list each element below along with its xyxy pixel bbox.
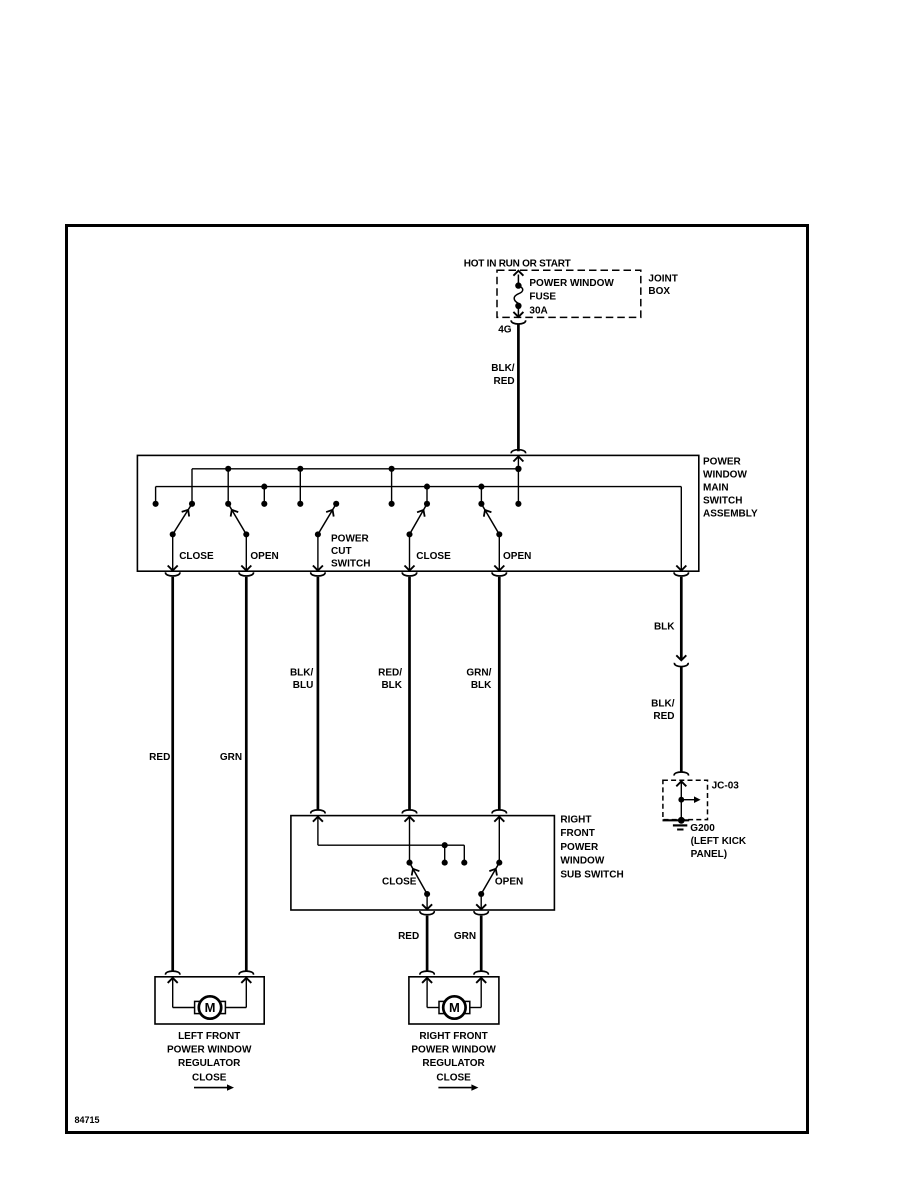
contact dot xyxy=(515,501,521,507)
connector below sub switch xyxy=(420,911,434,915)
switch LF close pivot dot xyxy=(170,531,176,537)
wire RED to right regulator xyxy=(426,916,429,972)
wire to motor + left front power window regulator xyxy=(172,978,174,1008)
wire contact stub at 264 xyxy=(263,487,265,504)
right front power window regulator close direction arrow xyxy=(438,1087,471,1089)
entry arrow right front power window regulator xyxy=(422,978,432,983)
power cut switch arm xyxy=(318,505,335,534)
svg-text:SUB SWITCH: SUB SWITCH xyxy=(560,869,623,880)
wire GRN to left regulator xyxy=(245,577,248,972)
entry arrow right front power window regulator xyxy=(476,978,486,983)
switch RF close arm xyxy=(410,505,427,534)
connector below main switch assembly xyxy=(402,572,416,576)
contact dot xyxy=(478,501,484,507)
svg-text:REGULATOR: REGULATOR xyxy=(178,1058,241,1069)
switch LF open arm xyxy=(229,505,246,534)
switch RF close pivot dot xyxy=(406,531,412,537)
switch RF open output wire xyxy=(498,534,500,569)
svg-text:CLOSE: CLOSE xyxy=(179,551,214,562)
motor M of left front power window regulator xyxy=(195,1001,200,1013)
connector into right front power window regulator xyxy=(420,971,434,975)
fuse top terminal dot xyxy=(515,282,521,288)
svg-text:PANEL): PANEL) xyxy=(691,849,727,860)
wire BLK/BLU inside sub switch xyxy=(317,816,319,845)
svg-text:BLK: BLK xyxy=(471,680,492,691)
connector into left front power window regulator xyxy=(166,971,180,975)
wire BLK/RED feed to main switch xyxy=(517,324,520,451)
wire BLK upper segment xyxy=(680,577,683,660)
wire feed drop inside box xyxy=(517,456,519,504)
BLK output arrow xyxy=(676,566,686,571)
wire cross link in sub switch xyxy=(318,844,464,846)
junction lower bus xyxy=(424,484,430,490)
sub OPEN output wire xyxy=(480,894,482,909)
svg-text:LEFT FRONT: LEFT FRONT xyxy=(178,1031,240,1042)
svg-text:MAIN: MAIN xyxy=(703,482,729,493)
left front power window regulator close direction arrow xyxy=(194,1087,227,1089)
svg-text:BLK: BLK xyxy=(381,680,402,691)
connector into sub switch xyxy=(311,810,325,814)
junction upper bus xyxy=(389,466,395,472)
entry arrow left front power window regulator xyxy=(168,978,178,983)
junction on cross link xyxy=(442,842,448,848)
contact dot xyxy=(189,501,195,507)
svg-text:BLU: BLU xyxy=(293,680,314,691)
svg-text:OPEN: OPEN xyxy=(503,551,531,562)
connector into sub switch xyxy=(492,810,506,814)
svg-text:POWER: POWER xyxy=(703,456,742,467)
svg-text:REGULATOR: REGULATOR xyxy=(422,1058,485,1069)
wire lower bus to BLK output xyxy=(680,487,682,570)
svg-text:RIGHT FRONT: RIGHT FRONT xyxy=(419,1031,487,1042)
wire BLK/BLU to sub switch xyxy=(317,577,320,811)
lower bus wire xyxy=(156,486,682,488)
entry arrow sub switch xyxy=(405,817,415,822)
contact dot xyxy=(297,501,303,507)
svg-text:OPEN: OPEN xyxy=(250,551,278,562)
switch LF close output wire xyxy=(172,534,174,569)
svg-text:CLOSE: CLOSE xyxy=(416,551,451,562)
svg-text:CLOSE: CLOSE xyxy=(382,877,417,888)
wire contact stub at 427 xyxy=(426,487,428,504)
svg-text:M: M xyxy=(449,1000,460,1015)
switch RF close output wire xyxy=(409,534,411,569)
contact dot xyxy=(389,501,395,507)
connector 4G below joint box xyxy=(511,320,525,324)
connector into main switch assembly xyxy=(511,450,525,454)
fuse output down-arrow xyxy=(513,312,523,317)
wire BLK/RED ground segment xyxy=(680,667,683,773)
svg-text:(LEFT KICK: (LEFT KICK xyxy=(691,836,747,847)
svg-text:SWITCH: SWITCH xyxy=(703,495,742,506)
wire contact stub at 481 xyxy=(480,487,482,504)
connector below main switch assembly xyxy=(166,572,180,576)
svg-text:BLK: BLK xyxy=(654,621,675,632)
sub switch contact dot xyxy=(442,860,448,866)
svg-text:CLOSE: CLOSE xyxy=(192,1073,227,1084)
entry arrow sub switch xyxy=(313,817,323,822)
wire upper-bus left drop xyxy=(191,469,193,504)
contact dot xyxy=(225,501,231,507)
junction connector JC-03 dashed box xyxy=(663,780,708,819)
junction dot JC-03 xyxy=(678,797,684,803)
contact dot xyxy=(153,501,159,507)
joint box (dashed) xyxy=(497,270,641,317)
svg-text:RED: RED xyxy=(653,711,674,722)
svg-text:CUT: CUT xyxy=(331,546,352,557)
switch LF open pivot dot xyxy=(243,531,249,537)
connector below main switch assembly xyxy=(492,572,506,576)
power cut switch output wire xyxy=(317,534,319,569)
connector below main switch assembly xyxy=(239,572,253,576)
fuse bottom terminal dot xyxy=(515,303,521,309)
wire to motor + right front power window regulator xyxy=(426,978,428,1008)
inline connector socket (BLK) xyxy=(674,663,688,667)
svg-text:SWITCH: SWITCH xyxy=(331,559,370,570)
svg-text:CLOSE: CLOSE xyxy=(436,1073,471,1084)
wire link stub at 445 xyxy=(444,845,446,862)
svg-text:POWER WINDOW: POWER WINDOW xyxy=(167,1045,252,1056)
contact dot xyxy=(261,501,267,507)
entry arrow left front power window regulator xyxy=(241,978,251,983)
wire to motor - left front power window regulator xyxy=(245,978,247,1008)
svg-text:FRONT: FRONT xyxy=(560,828,594,839)
sub CLOSE output wire xyxy=(426,894,428,909)
wire GRN/BLK to sub switch xyxy=(498,577,501,811)
ground G200 symbol xyxy=(663,819,690,821)
svg-text:RIGHT: RIGHT xyxy=(560,814,591,825)
wire link drop at 464 xyxy=(463,845,465,862)
junction feed/upper bus xyxy=(515,466,521,472)
fuse feed up-arrow to HOT xyxy=(513,271,523,276)
sub switch contact dot xyxy=(406,860,412,866)
wire GRN/BLK inside sub switch xyxy=(498,816,500,862)
svg-text:4G: 4G xyxy=(498,325,512,336)
power cut switch pivot dot xyxy=(315,531,321,537)
svg-text:RED/: RED/ xyxy=(378,667,402,678)
wire contact drop at 228 xyxy=(227,469,229,504)
connector into JC-03 xyxy=(674,772,688,776)
right front power window regulator box xyxy=(409,977,499,1024)
svg-text:GRN: GRN xyxy=(220,752,242,763)
switch RF open arm xyxy=(482,505,499,534)
sub switch OPEN arm xyxy=(481,864,498,894)
svg-text:84715: 84715 xyxy=(75,1115,100,1125)
svg-text:FUSE: FUSE xyxy=(529,292,556,303)
svg-text:JOINT: JOINT xyxy=(648,273,677,284)
contact dot xyxy=(424,501,430,507)
switch RF open pivot dot xyxy=(496,531,502,537)
svg-text:BLK/: BLK/ xyxy=(290,667,314,678)
sub switch CLOSE pivot dot xyxy=(424,891,430,897)
contact (power cut NC) dot xyxy=(333,501,339,507)
entry arrow JC-03 xyxy=(676,781,686,786)
svg-text:POWER WINDOW: POWER WINDOW xyxy=(529,278,614,289)
svg-text:ASSEMBLY: ASSEMBLY xyxy=(703,508,758,519)
svg-text:POWER: POWER xyxy=(331,534,370,545)
JC-03 branch arrow xyxy=(681,799,694,801)
ground G200 dot xyxy=(678,817,685,824)
svg-text:WINDOW: WINDOW xyxy=(703,469,747,480)
wire lower-bus left drop xyxy=(155,487,157,504)
svg-text:M: M xyxy=(205,1000,216,1015)
switch LF close arm xyxy=(173,505,191,534)
wire GRN to right regulator xyxy=(480,916,483,972)
wire RED to left regulator xyxy=(171,577,174,972)
sub switch contact dot xyxy=(461,860,467,866)
left front power window regulator box xyxy=(155,977,264,1024)
svg-text:G200: G200 xyxy=(690,823,715,834)
wire contact drop at 392 xyxy=(391,469,393,504)
connector into sub switch xyxy=(402,810,416,814)
junction upper bus xyxy=(225,466,231,472)
svg-text:JC-03: JC-03 xyxy=(712,780,740,791)
wire RED/BLK to sub switch xyxy=(408,577,411,811)
page border frame xyxy=(67,226,808,1133)
junction lower bus xyxy=(478,484,484,490)
svg-text:WINDOW: WINDOW xyxy=(560,856,604,867)
svg-text:POWER WINDOW: POWER WINDOW xyxy=(411,1045,496,1056)
motor M of right front power window regulator xyxy=(439,1001,444,1013)
svg-text:GRN: GRN xyxy=(454,931,476,942)
wire contact drop at 300 xyxy=(299,469,301,504)
svg-text:GRN/: GRN/ xyxy=(466,667,491,678)
connector into right front power window regulator xyxy=(474,971,488,975)
wire fuse bottom lead xyxy=(517,306,519,316)
connector below main switch assembly xyxy=(311,572,325,576)
junction lower bus xyxy=(261,484,267,490)
svg-text:RED: RED xyxy=(493,376,514,387)
connector below main switch assembly xyxy=(674,572,688,576)
svg-text:BLK/: BLK/ xyxy=(491,363,515,374)
sub switch contact dot xyxy=(496,860,502,866)
inline connector arrow (BLK) xyxy=(676,655,686,660)
svg-text:BOX: BOX xyxy=(648,286,670,297)
svg-text:OPEN: OPEN xyxy=(495,877,523,888)
right front power window sub switch box xyxy=(291,816,555,910)
sub switch OPEN pivot dot xyxy=(478,891,484,897)
upper bus wire xyxy=(192,468,518,470)
svg-text:HOT IN RUN OR START: HOT IN RUN OR START xyxy=(464,258,571,269)
junction upper bus xyxy=(297,466,303,472)
wire RED/BLK inside sub switch xyxy=(409,816,411,862)
wire inside JC-03 xyxy=(680,781,682,820)
sub switch CLOSE arm xyxy=(410,864,427,894)
switch LF open output wire xyxy=(245,534,247,569)
svg-text:POWER: POWER xyxy=(560,842,599,853)
power window main switch assembly box xyxy=(137,455,698,571)
connector into left front power window regulator xyxy=(239,971,253,975)
entry arrow sub switch xyxy=(494,817,504,822)
fuse POWER WINDOW FUSE 30A element xyxy=(514,286,523,304)
entry arrow main switch assembly xyxy=(513,457,523,462)
svg-text:BLK/: BLK/ xyxy=(651,698,675,709)
wire to motor - right front power window regulator xyxy=(480,978,482,1008)
wire fuse top lead xyxy=(517,275,519,286)
svg-text:30A: 30A xyxy=(529,305,547,316)
svg-text:RED: RED xyxy=(149,752,170,763)
svg-text:RED: RED xyxy=(398,931,419,942)
